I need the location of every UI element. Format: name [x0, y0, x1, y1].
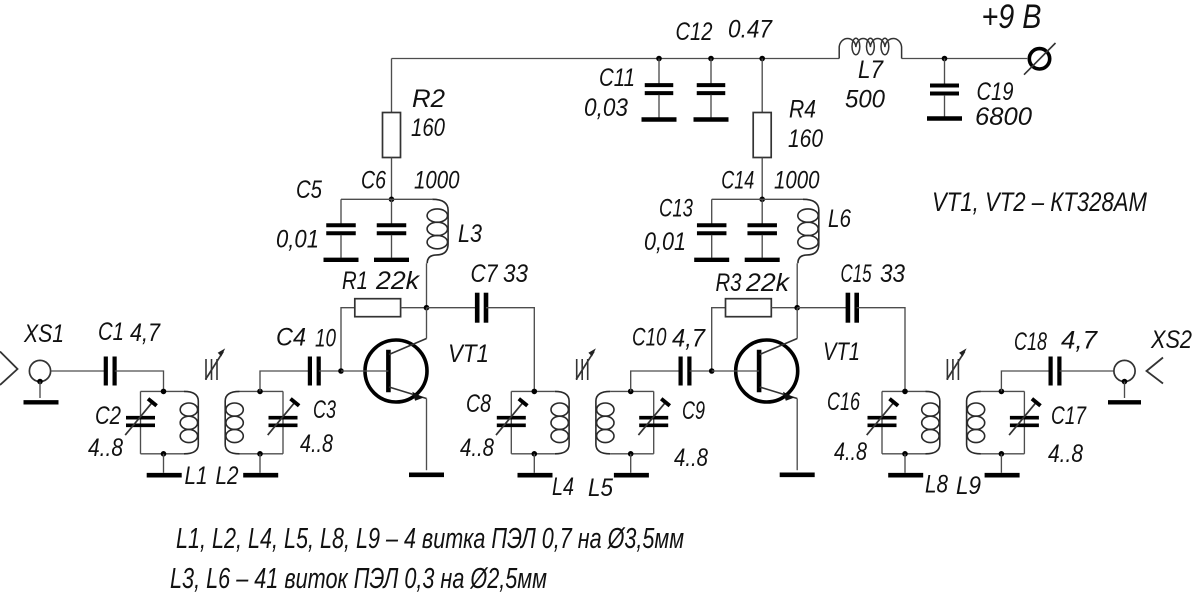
wire XS1 to C1 — [51, 370, 106, 372]
svg-text:C13: C13 — [659, 195, 693, 223]
svg-text:L8: L8 — [925, 471, 948, 499]
variable capacitor C2 — [125, 399, 156, 435]
wire tank to ground — [630, 454, 632, 473]
variable capacitor C17 — [1009, 399, 1040, 435]
wire tank to ground — [163, 454, 165, 473]
tank top wire — [981, 390, 1025, 392]
resistor R2 — [383, 113, 401, 158]
svg-text:10: 10 — [315, 325, 336, 353]
svg-text:1000: 1000 — [414, 167, 460, 195]
svg-text:0.47: 0.47 — [728, 16, 773, 44]
svg-text:0,01: 0,01 — [276, 226, 319, 254]
variable capacitor C16 — [867, 399, 898, 435]
svg-text:L3: L3 — [458, 220, 482, 248]
wire tank to ground — [533, 454, 535, 473]
node tank top — [161, 389, 167, 395]
tank cap-side wire — [140, 391, 142, 453]
svg-text:0,03: 0,03 — [584, 94, 628, 122]
svg-text:C17: C17 — [1051, 402, 1087, 430]
coil — [551, 391, 569, 453]
node rail-C11 — [656, 56, 662, 62]
svg-text:L6: L6 — [828, 205, 851, 233]
svg-text:R2: R2 — [412, 85, 445, 113]
inductor L3 — [427, 199, 448, 263]
wire L6 to collector node — [796, 263, 798, 307]
ground tank — [614, 473, 649, 478]
wire tank to ground — [259, 454, 261, 473]
resistor R3 — [726, 299, 772, 317]
wire tank to ground — [904, 454, 906, 473]
tank bottom wire — [141, 453, 185, 455]
wire decoupling horizontal — [712, 198, 803, 200]
connector XS1 socket — [29, 360, 50, 381]
adjustable coupling symbol — [576, 348, 596, 380]
tank top wire — [882, 390, 926, 392]
svg-text:C9: C9 — [682, 397, 705, 425]
coil — [596, 391, 614, 453]
svg-text:C14: C14 — [721, 167, 754, 195]
node tank top — [628, 389, 634, 395]
node rail-C19 — [942, 56, 948, 62]
wire L9 to C18 — [1001, 371, 1050, 391]
wire base node to VT1 — [341, 370, 388, 372]
svg-text:VT1, VT2 – КТ328АМ: VT1, VT2 – КТ328АМ — [932, 187, 1147, 217]
wire rail to R4 — [761, 59, 763, 113]
svg-text:C15: C15 — [841, 260, 872, 288]
svg-text:1000: 1000 — [774, 167, 820, 195]
wire C15 to tank — [857, 308, 905, 392]
wire XS1 to ground — [39, 382, 41, 399]
ground tank — [147, 473, 182, 478]
capacitor C10 — [681, 357, 690, 386]
ground tank — [985, 473, 1020, 478]
capacitor C18 — [1051, 357, 1060, 386]
svg-text:VT1: VT1 — [823, 338, 860, 366]
wire C1 to L1 tank — [115, 371, 164, 391]
ground tank — [518, 473, 553, 478]
svg-text:500: 500 — [845, 86, 885, 114]
coil — [180, 391, 198, 453]
svg-text:33: 33 — [503, 260, 528, 288]
tank cap-side wire — [881, 391, 883, 453]
wire base riser to R3 — [712, 308, 726, 371]
svg-text:L2: L2 — [216, 462, 239, 490]
wire emitter to ground — [796, 399, 798, 471]
tank top wire — [141, 390, 185, 392]
adjustable coupling symbol — [206, 348, 226, 380]
variable capacitor C3 — [268, 399, 299, 435]
svg-text:C10: C10 — [632, 324, 667, 352]
capacitor C6 — [374, 199, 409, 259]
+9V terminal — [1024, 43, 1056, 75]
svg-text:C2: C2 — [95, 402, 121, 430]
svg-text:C5: C5 — [296, 176, 322, 204]
svg-text:6800: 6800 — [975, 103, 1032, 131]
svg-text:4..8: 4..8 — [834, 438, 867, 466]
svg-text:R4: R4 — [789, 96, 816, 124]
transistor VT1 — [365, 339, 427, 403]
svg-text:C3: C3 — [313, 396, 336, 424]
wire C18 to XS2 — [1060, 370, 1114, 372]
wire collector node to C7 — [427, 307, 478, 309]
inductor L7 — [839, 38, 901, 58]
svg-text:4..8: 4..8 — [300, 430, 333, 458]
node tank top — [257, 389, 263, 395]
coil — [225, 391, 243, 453]
capacitor C4 — [310, 357, 319, 386]
node C6 junction — [389, 197, 395, 203]
wire base riser to R1 — [341, 308, 355, 371]
svg-text:22k: 22k — [375, 267, 421, 295]
node rail-C12 — [708, 56, 714, 62]
node XS2 ground junction — [1122, 379, 1128, 385]
svg-text:XS2: XS2 — [1150, 326, 1192, 354]
node tank bottom — [999, 451, 1005, 457]
tank top wire — [610, 390, 654, 392]
connector XS2 socket — [1114, 360, 1135, 381]
resistor R4 — [753, 113, 771, 158]
node tank bottom — [161, 451, 167, 457]
tank bottom wire — [240, 453, 284, 455]
node tank bottom — [532, 451, 538, 457]
svg-text:4,7: 4,7 — [130, 319, 161, 347]
tank top wire — [511, 390, 555, 392]
wire rail to R2 — [391, 59, 393, 113]
wire base node to VT2 — [712, 370, 759, 372]
tank bottom wire — [882, 453, 926, 455]
tank cap-side wire — [653, 391, 655, 453]
svg-text:L7: L7 — [858, 56, 884, 84]
svg-text:33: 33 — [880, 260, 905, 288]
wire C4 to base node — [319, 370, 341, 372]
capacitor C15 — [848, 293, 857, 323]
svg-text:C16: C16 — [827, 388, 860, 416]
tank cap-side wire — [510, 391, 512, 453]
svg-text:L1: L1 — [185, 462, 208, 490]
svg-text:4..8: 4..8 — [460, 434, 494, 462]
svg-text:R3: R3 — [716, 269, 742, 297]
svg-text:+9 В: +9 В — [982, 0, 1042, 36]
svg-text:L4: L4 — [552, 473, 574, 501]
node tank top — [999, 389, 1005, 395]
capacitor C19 — [927, 59, 962, 119]
coil — [967, 391, 985, 453]
node tank bottom — [902, 451, 908, 457]
ground tank — [243, 473, 278, 478]
wire C7 to tank — [486, 308, 534, 392]
node tank top — [902, 389, 908, 395]
svg-text:160: 160 — [411, 114, 445, 142]
svg-text:4,7: 4,7 — [672, 325, 706, 353]
capacitor C1 — [106, 357, 115, 386]
capacitor C5 — [324, 199, 359, 259]
variable capacitor C9 — [638, 399, 669, 435]
connector XS2 pin arrow — [1147, 358, 1164, 384]
wire XS2 to ground — [1124, 382, 1126, 399]
wire emitter to ground — [426, 399, 428, 471]
svg-text:C11: C11 — [599, 64, 635, 92]
node VT1 base — [338, 368, 344, 374]
adjustable coupling symbol — [947, 348, 967, 380]
connector XS1 pin arrow — [0, 352, 18, 386]
svg-text:22k: 22k — [745, 269, 791, 297]
tank bottom wire — [511, 453, 555, 455]
capacitor C13 — [694, 199, 729, 259]
wire L5 to C10 — [631, 371, 681, 391]
node tank bottom — [257, 451, 263, 457]
svg-text:XS1: XS1 — [23, 320, 64, 348]
tank bottom wire — [981, 453, 1025, 455]
svg-text:4,7: 4,7 — [1061, 327, 1098, 355]
ground XS1 — [24, 400, 59, 404]
svg-text:VT1: VT1 — [448, 340, 489, 368]
capacitor C14 — [745, 199, 780, 259]
node rail-R4 — [759, 56, 765, 62]
wire collector node down — [796, 308, 798, 339]
svg-text:160: 160 — [788, 125, 823, 153]
wire tank to ground — [1000, 454, 1002, 473]
coil — [922, 391, 940, 453]
tank cap-side wire — [1023, 391, 1025, 453]
variable capacitor C8 — [496, 399, 527, 435]
wire collector node to C15 — [797, 307, 848, 309]
svg-text:C19: C19 — [977, 78, 1014, 106]
node VT2 base — [709, 368, 715, 374]
svg-text:4..8: 4..8 — [88, 434, 123, 462]
wire decoupling horizontal — [341, 198, 432, 200]
wire R4 to node — [761, 158, 763, 200]
node tank bottom — [628, 451, 634, 457]
svg-text:C7: C7 — [471, 260, 499, 288]
svg-text:C12: C12 — [676, 18, 713, 46]
tank bottom wire — [610, 453, 654, 455]
capacitor C12 — [694, 59, 729, 120]
wire collector node down — [426, 308, 428, 339]
wire R3 to collector node — [771, 307, 797, 309]
ground tank — [888, 473, 923, 478]
wire top supply rail left of L7 — [392, 58, 840, 60]
svg-text:C4: C4 — [276, 324, 306, 352]
resistor R1 — [355, 299, 401, 317]
svg-text:L5: L5 — [588, 474, 613, 502]
svg-text:C6: C6 — [361, 167, 386, 195]
capacitor C7 — [477, 293, 486, 323]
ground emitter — [409, 472, 444, 477]
svg-text:R1: R1 — [342, 267, 368, 295]
wire L3 to collector node — [426, 263, 428, 307]
transistor VT2 — [736, 339, 798, 403]
wire L2 to C4 — [260, 371, 310, 391]
ground XS2 — [1108, 400, 1141, 404]
ground emitter — [780, 472, 815, 477]
tank cap-side wire — [282, 391, 284, 453]
wire top supply rail right of L7 — [902, 58, 1028, 60]
wire C10 to base node — [690, 370, 712, 372]
node collector junction — [794, 305, 800, 311]
capacitor C11 — [642, 59, 677, 120]
svg-text:4..8: 4..8 — [1048, 440, 1083, 468]
tank top wire — [240, 390, 284, 392]
svg-text:C18: C18 — [1014, 328, 1047, 356]
wire R1 to collector node — [401, 307, 427, 309]
svg-text:4..8: 4..8 — [674, 444, 708, 472]
svg-text:C1: C1 — [98, 318, 124, 346]
node tank top — [532, 389, 538, 395]
node XS1 ground junction — [37, 379, 43, 385]
svg-text:L1, L2, L4, L5, L8, L9 – 4 вит: L1, L2, L4, L5, L8, L9 – 4 витка ПЭЛ 0,7… — [176, 523, 684, 555]
wire R2 to node — [391, 158, 393, 200]
svg-text:L3, L6 – 41 виток ПЭЛ 0,3 на Ø: L3, L6 – 41 виток ПЭЛ 0,3 на Ø2,5мм — [170, 563, 547, 595]
svg-text:0,01: 0,01 — [644, 228, 686, 256]
svg-text:C8: C8 — [466, 390, 491, 418]
node collector junction — [424, 305, 430, 311]
inductor L6 — [798, 199, 819, 263]
node C14 junction — [759, 197, 765, 203]
svg-text:L9: L9 — [956, 472, 981, 500]
